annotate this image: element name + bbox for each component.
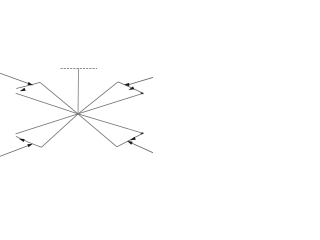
annotation arrow BR bbox=[132, 143, 153, 153]
UL sweep arc bbox=[16, 82, 40, 88]
UL sweep arrowhead bbox=[20, 88, 26, 92]
wire: BR steep ray bbox=[78, 114, 117, 147]
wire: LL steep ray bbox=[42, 114, 79, 147]
UR tip junction bbox=[141, 92, 144, 95]
BR tip junction bbox=[141, 132, 144, 135]
UR sweep arc bbox=[118, 82, 142, 93]
annotation arrow LL bbox=[0, 146, 28, 157]
LL sweep arc bbox=[16, 136, 42, 147]
BR sweep arrowhead bbox=[130, 137, 136, 141]
vertical axis wire bbox=[77, 69, 79, 114]
T-bar support bbox=[61, 68, 98, 70]
wire: UL shallow ray bbox=[16, 93, 78, 114]
wire: UL steep ray bbox=[40, 82, 78, 114]
wire: LL shallow ray bbox=[16, 114, 78, 134]
wire: UR shallow ray bbox=[78, 93, 143, 114]
UR sweep arrowhead bbox=[128, 86, 134, 90]
annotation arrow UR bbox=[129, 77, 153, 84]
LL sweep arrowhead bbox=[19, 139, 25, 142]
BR sweep arc bbox=[117, 134, 142, 147]
wire: BR shallow ray bbox=[78, 114, 143, 133]
wire: UR steep ray bbox=[78, 82, 118, 114]
annotation arrow UL bbox=[0, 73, 28, 83]
node C (center) bbox=[77, 113, 79, 115]
